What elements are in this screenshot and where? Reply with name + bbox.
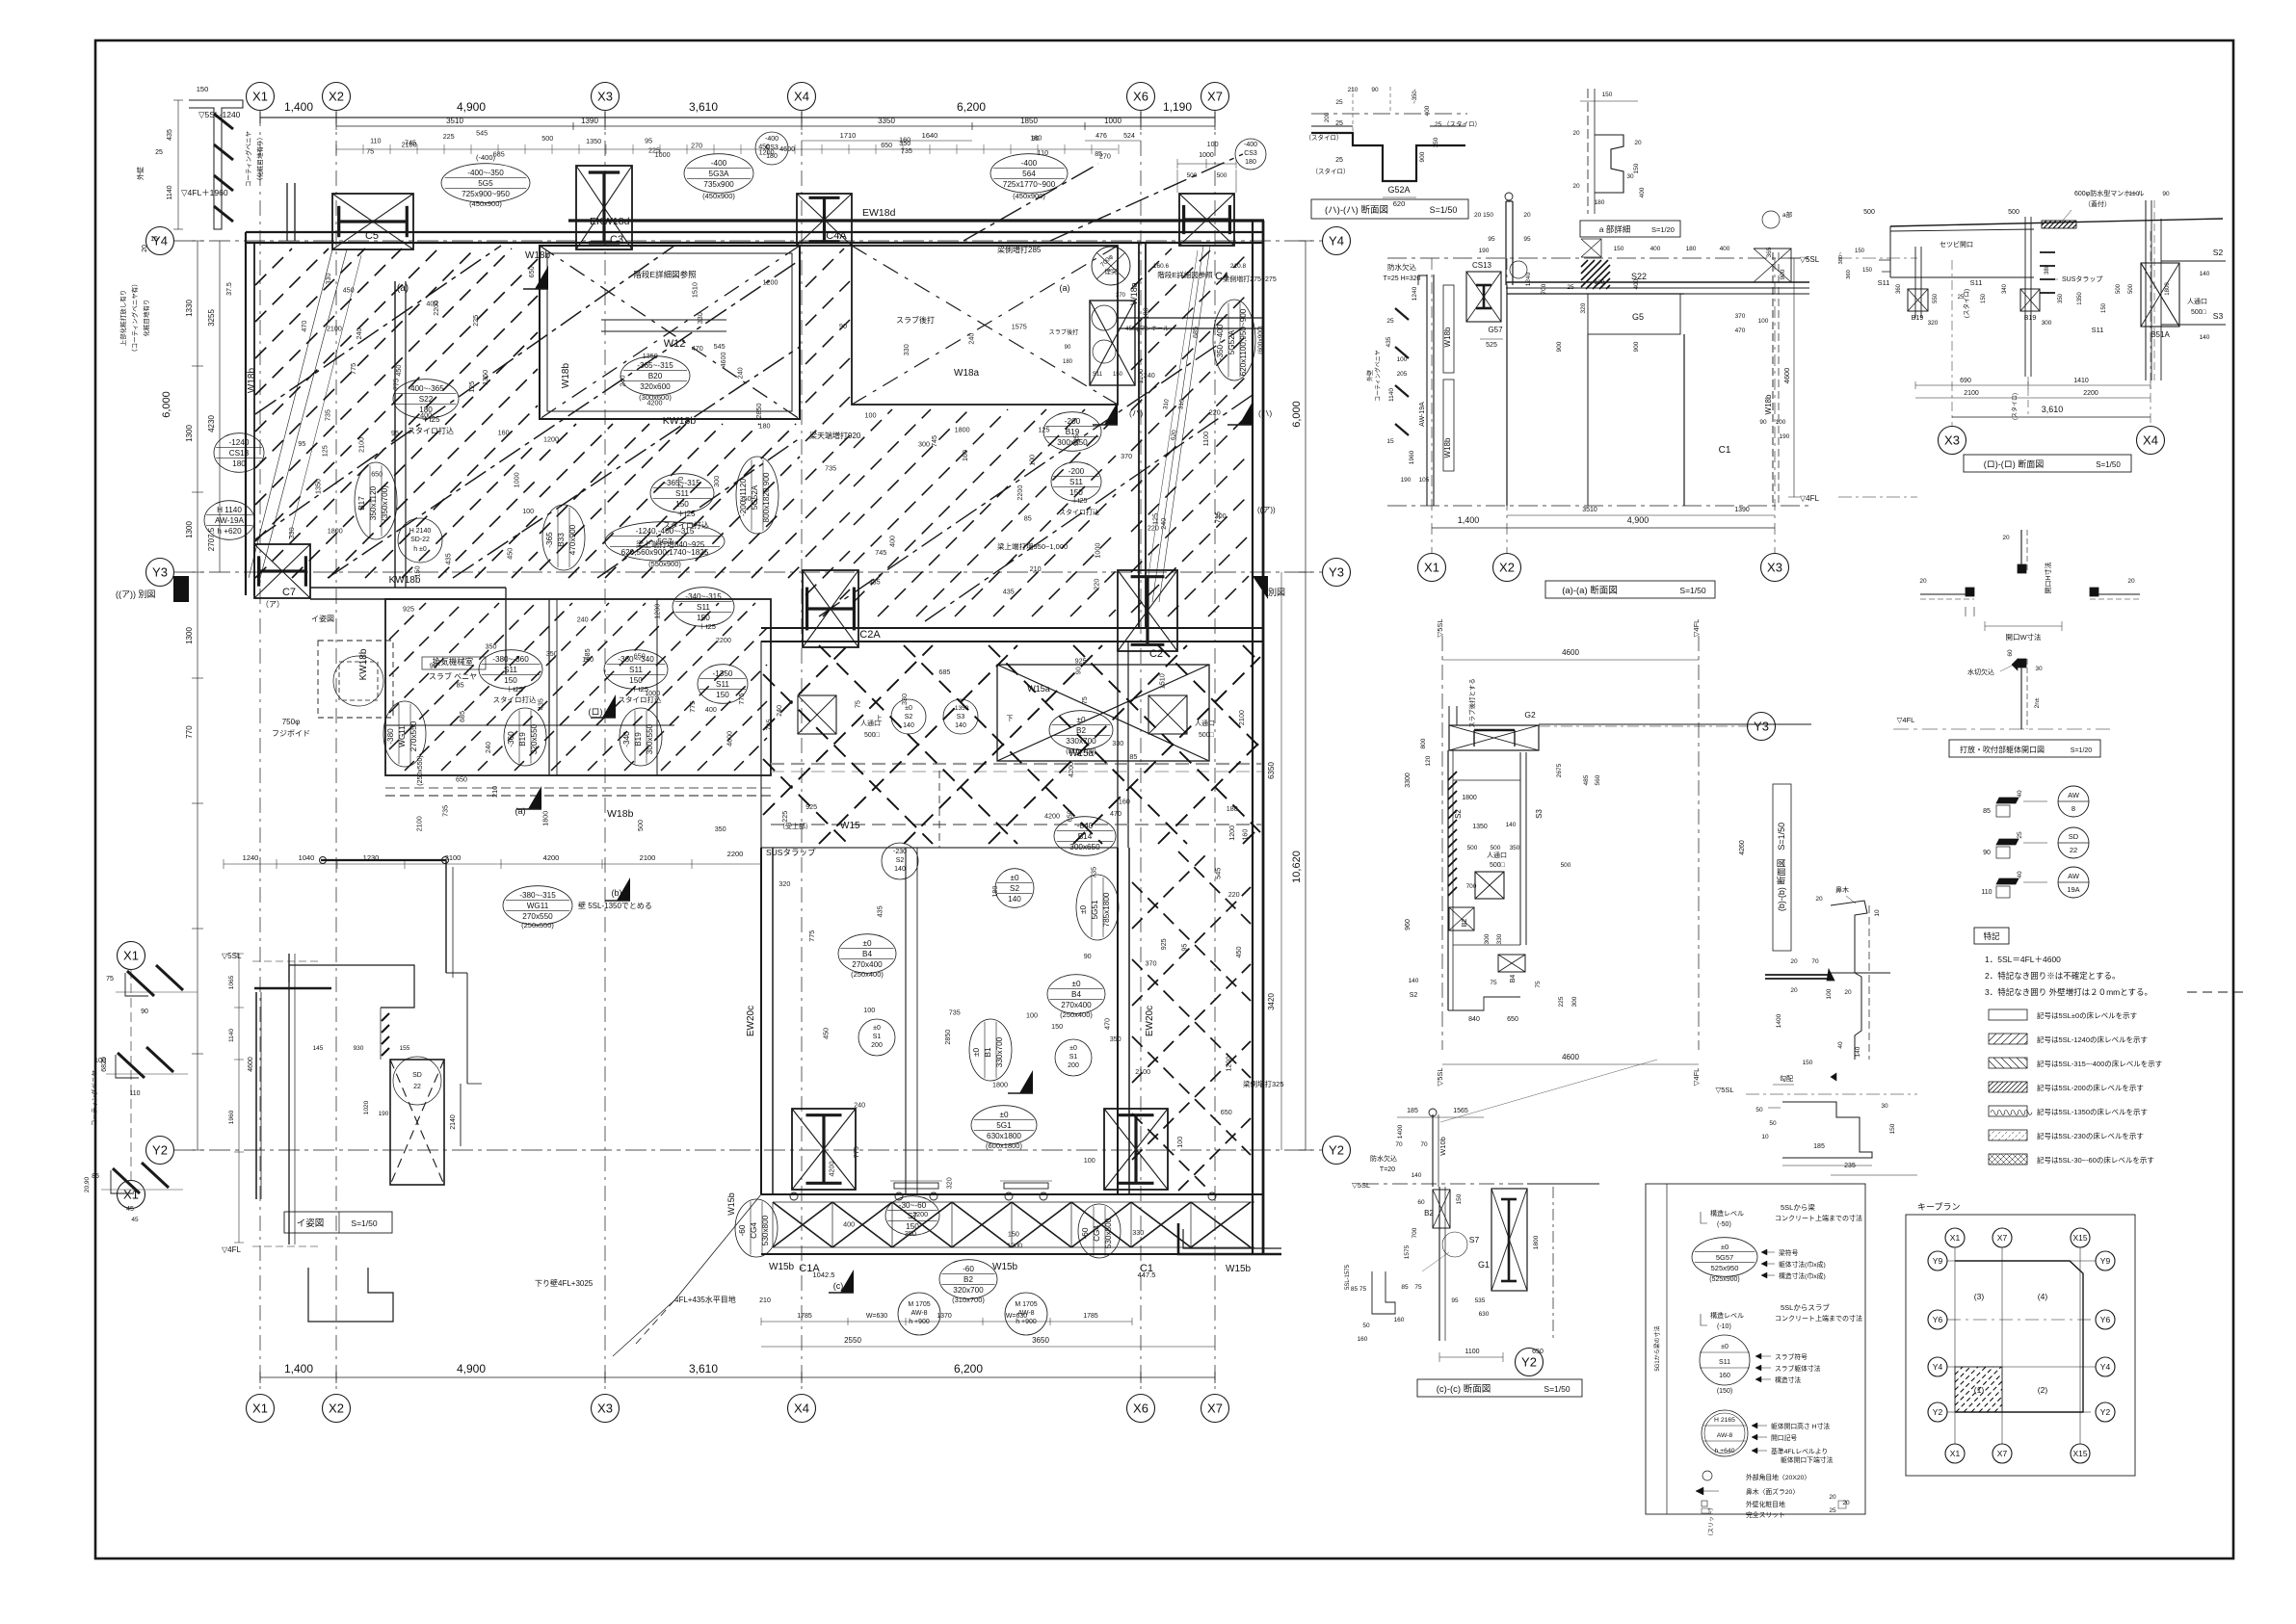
svg-text:W15b: W15b	[992, 1262, 1018, 1272]
svg-text:1800: 1800	[1533, 1235, 1540, 1249]
svg-text:S11: S11	[1719, 1359, 1730, 1366]
svg-text:500: 500	[636, 820, 645, 831]
svg-text:AW-8: AW-8	[1017, 1310, 1034, 1317]
svg-text:925: 925	[1075, 656, 1087, 665]
svg-text:140: 140	[1506, 822, 1517, 828]
svg-text:スタイロ打込: スタイロ打込	[493, 694, 537, 704]
svg-text:1510: 1510	[1158, 673, 1167, 689]
svg-text:1850: 1850	[1020, 117, 1038, 125]
svg-text:70: 70	[1395, 1141, 1403, 1148]
svg-text:3510: 3510	[1582, 507, 1597, 513]
svg-text:構造寸法: 構造寸法	[1775, 1375, 1801, 1384]
svg-text:壁 5SL-1350でとめる: 壁 5SL-1350でとめる	[578, 901, 652, 910]
svg-text:-365~-315: -365~-315	[637, 361, 673, 370]
svg-text:（化粧目地有り）: （化粧目地有り）	[255, 134, 264, 184]
svg-text:210: 210	[1030, 564, 1042, 573]
svg-text:開口H寸法: 開口H寸法	[2044, 562, 2052, 593]
svg-text:W18b: W18b	[561, 363, 571, 389]
svg-text:記号は5SL-30~-60の床レベルを示す: 記号は5SL-30~-60の床レベルを示す	[2037, 1155, 2154, 1165]
svg-text:(450x900): (450x900)	[1013, 192, 1045, 200]
svg-text:925: 925	[805, 802, 817, 811]
svg-text:煙突: 煙突	[1105, 267, 1119, 275]
svg-text:365: 365	[1766, 247, 1773, 257]
svg-text:85: 85	[1401, 1284, 1409, 1291]
svg-text:AW-19A: AW-19A	[215, 516, 245, 525]
svg-text:240: 240	[854, 1101, 865, 1110]
svg-text:▽5SL: ▽5SL	[1715, 1086, 1733, 1094]
svg-text:125: 125	[1039, 426, 1050, 434]
svg-text:775: 775	[737, 694, 746, 705]
svg-text:外壁化粧目地: 外壁化粧目地	[1746, 1500, 1785, 1508]
svg-text:1710: 1710	[840, 131, 857, 140]
svg-text:75: 75	[366, 146, 374, 155]
svg-text:-360: -360	[507, 731, 515, 747]
svg-text:100: 100	[863, 1006, 875, 1014]
svg-text:コンクリート上端までの寸法: コンクリート上端までの寸法	[1775, 1214, 1862, 1222]
svg-text:構造寸法(巾x成): 構造寸法(巾x成)	[1779, 1271, 1826, 1280]
svg-text:700: 700	[1466, 883, 1477, 890]
svg-text:(ロ)-(ロ) 断面図: (ロ)-(ロ) 断面図	[1984, 458, 2045, 469]
svg-text:160: 160	[1241, 829, 1250, 841]
svg-text:4200: 4200	[1044, 812, 1060, 821]
svg-text:SD: SD	[2069, 832, 2079, 841]
svg-text:630: 630	[1479, 1311, 1490, 1318]
svg-text:X2: X2	[329, 1401, 344, 1416]
svg-text:40: 40	[1837, 1041, 1844, 1049]
svg-text:W15b: W15b	[769, 1262, 795, 1272]
svg-text:447.5: 447.5	[1138, 1270, 1156, 1279]
svg-text:H 1140: H 1140	[217, 506, 242, 514]
svg-text:1785: 1785	[797, 1313, 812, 1320]
svg-text:4200: 4200	[1067, 762, 1075, 777]
svg-text:2200: 2200	[727, 850, 744, 858]
svg-text:476: 476	[1095, 133, 1107, 140]
svg-text:650: 650	[1507, 1016, 1518, 1023]
svg-text:4,900: 4,900	[457, 1362, 486, 1375]
svg-text:800x1820,900: 800x1820,900	[762, 472, 771, 522]
svg-text:CG4: CG4	[1093, 1225, 1101, 1242]
svg-text:150: 150	[1433, 137, 1439, 147]
svg-text:240: 240	[355, 328, 363, 340]
svg-text:上部化粧打放し有り: 上部化粧打放し有り	[119, 290, 127, 347]
svg-text:75: 75	[106, 976, 114, 982]
svg-text:160: 160	[1394, 1317, 1405, 1323]
svg-text:240: 240	[1144, 371, 1155, 380]
svg-text:(ハ): (ハ)	[1129, 408, 1143, 418]
svg-text:X4: X4	[794, 90, 809, 104]
svg-text:1800: 1800	[1462, 795, 1477, 801]
svg-text:▽5SL: ▽5SL	[1436, 618, 1444, 637]
svg-text:5G57: 5G57	[1716, 1253, 1733, 1262]
svg-text:スラブ ベニヤ: スラブ ベニヤ	[429, 671, 477, 681]
svg-text:h +640: h +640	[1715, 1448, 1735, 1454]
svg-text:10: 10	[1874, 909, 1881, 917]
svg-text:1200: 1200	[652, 604, 661, 619]
svg-text:4600: 4600	[1782, 368, 1791, 384]
svg-text:S3: S3	[2213, 311, 2224, 321]
svg-text:1100: 1100	[1136, 369, 1145, 383]
svg-text:WG11: WG11	[398, 725, 407, 747]
svg-text:400: 400	[1650, 246, 1661, 252]
svg-text:記号は5SL-315~-400の床レベルを示す: 記号は5SL-315~-400の床レベルを示す	[2037, 1059, 2162, 1068]
svg-text:X7: X7	[1997, 1449, 2008, 1458]
svg-text:330: 330	[1132, 1228, 1144, 1237]
svg-text:W18b: W18b	[607, 808, 634, 820]
svg-text:900: 900	[1556, 341, 1563, 352]
svg-text:110: 110	[129, 1090, 140, 1097]
svg-text:1390: 1390	[581, 117, 598, 125]
svg-text:20: 20	[1523, 212, 1531, 219]
svg-text:350: 350	[905, 1229, 916, 1238]
svg-text:95: 95	[1523, 236, 1531, 243]
svg-text:X15: X15	[2072, 1233, 2087, 1243]
svg-text:（ア）: （ア）	[261, 600, 284, 609]
svg-text:485: 485	[1583, 774, 1590, 785]
svg-text:1,400: 1,400	[1458, 515, 1480, 525]
svg-text:125: 125	[467, 381, 476, 393]
svg-text:SD: SD	[412, 1072, 422, 1079]
svg-text:180: 180	[1227, 804, 1238, 813]
svg-text:745: 745	[765, 720, 774, 731]
svg-text:KW18b: KW18b	[663, 415, 697, 427]
svg-text:40: 40	[2017, 790, 2023, 798]
svg-text:-200: -200	[1065, 417, 1081, 426]
svg-text:75: 75	[1080, 696, 1089, 704]
svg-text:±0: ±0	[1069, 1045, 1077, 1052]
svg-text:150: 150	[1614, 246, 1624, 252]
svg-text:270x400: 270x400	[1061, 1001, 1092, 1009]
svg-text:400: 400	[1639, 187, 1646, 197]
svg-text:(a): (a)	[397, 283, 409, 294]
svg-text:100: 100	[94, 1058, 106, 1064]
svg-text:W10b: W10b	[1438, 1137, 1447, 1156]
svg-text:防水欠込: 防水欠込	[1370, 1154, 1397, 1163]
svg-text:220: 220	[1228, 890, 1240, 899]
svg-text:(ハ)-(ハ) 断面図: (ハ)-(ハ) 断面図	[1325, 204, 1388, 216]
svg-text:1200: 1200	[1227, 825, 1236, 841]
svg-text:435: 435	[876, 905, 884, 917]
svg-text:160: 160	[899, 136, 910, 144]
svg-text:330x700: 330x700	[995, 1036, 1004, 1067]
svg-text:(a): (a)	[515, 806, 526, 816]
svg-text:外壁: 外壁	[1366, 370, 1374, 381]
svg-text:-400: -400	[1244, 142, 1257, 148]
svg-text:330: 330	[287, 527, 296, 538]
svg-text:1240: 1240	[1412, 286, 1418, 301]
svg-text:S11: S11	[504, 666, 517, 674]
svg-text:1020: 1020	[363, 1100, 370, 1114]
svg-text:270: 270	[676, 477, 685, 488]
svg-text:▽4FL: ▽4FL	[1692, 619, 1701, 638]
svg-text:B20: B20	[648, 372, 663, 380]
svg-text:150: 150	[1113, 372, 1123, 378]
svg-text:564: 564	[1022, 170, 1036, 178]
svg-text:WG11: WG11	[527, 902, 549, 910]
svg-text:S2: S2	[2213, 248, 2224, 257]
svg-text:別図: 別図	[1268, 588, 1285, 597]
svg-text:(450x900): (450x900)	[702, 192, 735, 200]
svg-text:(250x400): (250x400)	[1060, 1010, 1093, 1019]
svg-text:435: 435	[167, 129, 173, 141]
svg-text:100: 100	[1758, 318, 1769, 325]
svg-text:37.5: 37.5	[226, 282, 233, 296]
svg-text:725x900~950: 725x900~950	[462, 190, 510, 198]
svg-text:X2: X2	[329, 90, 344, 104]
svg-text:330: 330	[324, 274, 332, 285]
svg-text:-1350: -1350	[713, 669, 733, 678]
svg-text:150: 150	[1069, 488, 1083, 497]
svg-text:110: 110	[1981, 889, 1992, 896]
svg-text:370: 370	[1121, 452, 1132, 460]
svg-text:22: 22	[413, 1084, 421, 1090]
svg-text:1100: 1100	[1465, 1349, 1479, 1355]
svg-text:G5: G5	[1632, 312, 1644, 322]
svg-text:鼻木〈面ズラ20〉: 鼻木〈面ズラ20〉	[1746, 1487, 1799, 1496]
svg-text:1390: 1390	[1734, 507, 1750, 513]
svg-text:(600x900): (600x900)	[1257, 326, 1264, 354]
svg-text:Y2: Y2	[1521, 1355, 1537, 1370]
svg-text:785x1800: 785x1800	[1102, 892, 1111, 927]
svg-text:CG4: CG4	[750, 1222, 758, 1239]
svg-text:1000: 1000	[513, 472, 521, 487]
svg-text:100: 100	[865, 411, 877, 420]
svg-text:160: 160	[498, 428, 510, 436]
svg-text:235: 235	[1844, 1163, 1856, 1169]
svg-text:-60: -60	[963, 1265, 974, 1273]
svg-text:190: 190	[1780, 433, 1790, 440]
svg-text:X3: X3	[1767, 561, 1782, 575]
svg-text:SUSタラップ: SUSタラップ	[2062, 275, 2102, 283]
svg-text:基準4FLレベルより: 基準4FLレベルより	[1771, 1447, 1828, 1455]
svg-text:梁上端打増950~1,000: 梁上端打増950~1,000	[997, 541, 1068, 551]
svg-text:2200: 2200	[716, 636, 731, 644]
svg-text:a 部詳細: a 部詳細	[1599, 224, 1631, 234]
svg-text:4600: 4600	[1562, 1053, 1579, 1061]
svg-text:-400: -400	[711, 159, 727, 168]
svg-text:650: 650	[371, 470, 383, 479]
svg-text:スラブ後打とする: スラブ後打とする	[1467, 678, 1476, 728]
svg-text:(-50): (-50)	[1717, 1221, 1731, 1228]
svg-text:S2: S2	[896, 857, 905, 864]
svg-text:梁天端増打920: 梁天端増打920	[809, 431, 861, 440]
svg-text:75: 75	[1414, 1284, 1422, 1291]
svg-text:2850: 2850	[754, 404, 763, 419]
svg-text:100: 100	[1175, 1137, 1184, 1148]
svg-text:X6: X6	[1133, 1401, 1148, 1416]
svg-text:(450x900): (450x900)	[469, 199, 502, 208]
svg-text:735x900: 735x900	[703, 180, 734, 189]
svg-text:Y6: Y6	[2100, 1315, 2111, 1324]
svg-text:-60: -60	[738, 1224, 747, 1236]
svg-text:S=1/20: S=1/20	[2071, 747, 2092, 754]
svg-text:4,900: 4,900	[1627, 515, 1649, 525]
svg-text:330: 330	[902, 344, 910, 355]
svg-text:75: 75	[854, 700, 862, 708]
svg-text:3510: 3510	[446, 117, 463, 125]
svg-text:150: 150	[629, 676, 643, 685]
svg-text:500□: 500□	[1490, 862, 1506, 869]
svg-text:1575: 1575	[1012, 323, 1027, 331]
svg-text:320: 320	[1580, 302, 1587, 313]
svg-text:W18b: W18b	[525, 250, 551, 261]
svg-text:650: 650	[634, 652, 646, 661]
svg-text:2140: 2140	[450, 1114, 457, 1130]
svg-text:20: 20	[142, 245, 148, 252]
svg-text:240: 240	[775, 705, 783, 717]
svg-text:85: 85	[1024, 514, 1032, 523]
svg-text:95: 95	[391, 429, 399, 437]
svg-text:2100: 2100	[640, 853, 656, 862]
svg-text:6,000: 6,000	[1291, 401, 1303, 428]
svg-text:180: 180	[1142, 307, 1150, 319]
svg-text:19A: 19A	[2067, 885, 2079, 894]
svg-text:240: 240	[577, 615, 589, 623]
svg-text:S11: S11	[716, 680, 729, 689]
svg-text:530x800: 530x800	[1104, 1218, 1113, 1248]
svg-text:5G51: 5G51	[1091, 900, 1099, 919]
svg-text:900: 900	[1633, 341, 1640, 352]
svg-text:25: 25	[1335, 120, 1343, 127]
svg-text:S11: S11	[1970, 278, 1983, 287]
svg-text:1960: 1960	[228, 1110, 235, 1124]
svg-text:400: 400	[426, 300, 437, 308]
svg-text:5G52A: 5G52A	[751, 485, 759, 510]
svg-text:20: 20	[1844, 989, 1852, 996]
svg-text:2100: 2100	[357, 437, 366, 453]
svg-text:450: 450	[822, 1028, 831, 1039]
svg-text:(2): (2)	[2038, 1385, 2048, 1395]
svg-text:W15: W15	[840, 821, 860, 831]
svg-text:Y2: Y2	[1329, 1143, 1344, 1158]
svg-text:コンクリート上端までの寸法: コンクリート上端までの寸法	[1775, 1314, 1862, 1323]
svg-text:S=1/50: S=1/50	[1544, 1384, 1570, 1394]
svg-text:B2: B2	[1462, 919, 1468, 928]
svg-text:6,200: 6,200	[954, 1362, 983, 1375]
svg-text:4200: 4200	[543, 853, 560, 862]
svg-text:1575: 1575	[1404, 1244, 1411, 1259]
svg-text:1350: 1350	[586, 137, 601, 145]
svg-text:700: 700	[1412, 1227, 1418, 1238]
svg-text:梁側増打285: 梁側増打285	[997, 245, 1042, 254]
svg-text:3420: 3420	[1267, 993, 1276, 1010]
svg-text:60: 60	[1417, 1199, 1425, 1206]
svg-text:650: 650	[456, 774, 467, 783]
svg-text:5G5: 5G5	[478, 179, 493, 188]
svg-text:1000: 1000	[645, 689, 660, 697]
svg-text:-380~-315: -380~-315	[519, 891, 556, 900]
svg-text:500: 500	[1863, 209, 1875, 216]
svg-text:3300: 3300	[1405, 773, 1412, 788]
svg-text:S=1/50: S=1/50	[1430, 205, 1458, 215]
svg-text:S3: S3	[957, 714, 965, 720]
svg-text:5G3A: 5G3A	[709, 170, 729, 178]
svg-text:1140: 1140	[167, 185, 173, 199]
svg-text:(250x550): (250x550)	[521, 921, 554, 930]
svg-text:▽4FL＋1960: ▽4FL＋1960	[181, 188, 228, 197]
svg-text:3,610: 3,610	[2042, 405, 2064, 414]
svg-text:梁側増打275+275: 梁側増打275+275	[1223, 275, 1277, 283]
svg-text:B19: B19	[518, 732, 527, 747]
svg-text:1240: 1240	[1525, 272, 1532, 286]
svg-text:(600x1800): (600x1800)	[986, 1141, 1022, 1150]
svg-text:210: 210	[490, 786, 499, 798]
svg-text:45: 45	[131, 1217, 139, 1223]
svg-text:350: 350	[1110, 1035, 1122, 1043]
svg-text:750φ: 750φ	[282, 718, 301, 726]
svg-text:▽5SL: ▽5SL	[1436, 1067, 1444, 1086]
svg-text:階段E詳細図参照: 階段E詳細図参照	[633, 270, 697, 279]
svg-text:G1: G1	[1478, 1260, 1490, 1270]
svg-text:構造レベル: 構造レベル	[1710, 1209, 1744, 1218]
svg-text:400: 400	[1720, 246, 1730, 252]
svg-text:1410: 1410	[2073, 378, 2089, 384]
svg-text:AW-8: AW-8	[1717, 1432, 1733, 1439]
svg-text:S=1/20: S=1/20	[1651, 225, 1675, 234]
svg-text:100: 100	[1776, 419, 1786, 426]
svg-text:960: 960	[1405, 919, 1412, 930]
svg-text:930: 930	[354, 1045, 364, 1052]
svg-text:-380~-360: -380~-360	[492, 655, 529, 664]
svg-text:40: 40	[2017, 871, 2023, 878]
svg-text:4200: 4200	[828, 1162, 836, 1177]
svg-text:350: 350	[546, 649, 558, 658]
svg-text:150: 150	[1456, 1193, 1463, 1204]
svg-text:S2: S2	[905, 714, 913, 720]
svg-text:▽5SL: ▽5SL	[1800, 255, 1820, 264]
svg-text:95: 95	[1488, 236, 1495, 243]
svg-text:685: 685	[493, 150, 505, 159]
svg-text:h +900: h +900	[909, 1319, 930, 1325]
svg-text:B17: B17	[357, 496, 366, 511]
svg-text:1,400: 1,400	[284, 1362, 313, 1375]
svg-text:4600: 4600	[725, 731, 733, 747]
svg-text:180: 180	[1245, 159, 1256, 166]
svg-text:Y3: Y3	[152, 565, 168, 580]
svg-text:(250x550): (250x550)	[417, 755, 424, 786]
svg-text:H 2165: H 2165	[1714, 1417, 1735, 1424]
svg-text:a部: a部	[1782, 210, 1793, 219]
svg-text:梁符号: 梁符号	[1779, 1248, 1799, 1257]
svg-text:S2: S2	[1010, 884, 1019, 893]
svg-text:X6: X6	[1133, 90, 1148, 104]
svg-text:10: 10	[1761, 1134, 1769, 1140]
svg-text:Y9: Y9	[2100, 1256, 2111, 1266]
svg-text:＋t25: ＋t25	[676, 510, 696, 518]
svg-text:スラブ躯体寸法: スラブ躯体寸法	[1775, 1364, 1821, 1373]
svg-text:B4: B4	[1510, 975, 1517, 983]
svg-text:特記: 特記	[1983, 931, 2000, 941]
svg-text:6,000: 6,000	[161, 391, 172, 418]
svg-text:1640: 1640	[922, 131, 938, 140]
svg-text:X7: X7	[1207, 1401, 1223, 1416]
svg-text:160: 160	[961, 450, 969, 461]
svg-text:(3): (3)	[1974, 1292, 1985, 1301]
svg-text:±0: ±0	[1079, 905, 1088, 914]
svg-text:350: 350	[715, 825, 726, 833]
svg-text:185: 185	[1813, 1143, 1825, 1150]
svg-text:X3: X3	[597, 90, 613, 104]
svg-text:650: 650	[1221, 1108, 1232, 1116]
svg-text:100: 100	[1027, 455, 1036, 466]
svg-text:500: 500	[1217, 172, 1227, 179]
svg-text:(350x700): (350x700)	[381, 485, 389, 521]
svg-text:外部角目地〈20X20〉: 外部角目地〈20X20〉	[1746, 1473, 1810, 1481]
svg-text:775: 775	[807, 930, 816, 942]
svg-text:4FL+435水平目地: 4FL+435水平目地	[674, 1295, 736, 1304]
svg-text:コーティングベニヤ: コーティングベニヤ	[244, 131, 252, 187]
svg-text:-400~-350: -400~-350	[467, 169, 504, 177]
svg-text:25: 25	[2017, 831, 2023, 839]
